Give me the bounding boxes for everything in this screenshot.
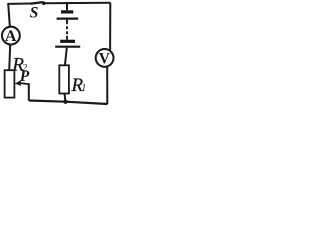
switch S pivot dot (42, 1, 46, 5)
wire: right vertical from top corner down to voltmeter (109, 3, 111, 51)
svg-text:S: S (30, 5, 39, 22)
voltmeter V circle (96, 49, 114, 67)
wire: left vertical from top-left corner down to ammeter (8, 4, 10, 27)
ammeter A letter (5, 28, 17, 45)
label R1 (71, 75, 87, 96)
node: battery top junction dot (66, 2, 69, 5)
label P (20, 68, 30, 85)
rheostat slider arrow (pointer P) (15, 80, 29, 86)
battery cell 2 long thin plate (55, 46, 80, 48)
svg-text:V: V (99, 50, 111, 67)
battery dashed middle stub (66, 20, 68, 40)
wire: slider tail down to bottom wire (28, 83, 30, 100)
wire: ammeter bottom to rheostat R2 (9, 45, 10, 71)
wire: battery bottom to resistor R1 (65, 48, 67, 66)
battery top stub (66, 3, 68, 10)
battery cell 1 long thin plate (57, 18, 79, 20)
ammeter A circle (2, 27, 20, 45)
voltmeter V letter (99, 50, 111, 67)
rheostat R2 body (5, 70, 15, 97)
switch S blade (31, 2, 44, 4)
junction dot at R1 bottom on bottom wire (63, 100, 67, 104)
wire: voltmeter bottom to bottom-right corner (106, 67, 108, 105)
label R2 (11, 55, 27, 76)
svg-text:1: 1 (81, 83, 86, 94)
wire: top horizontal right segment (45, 2, 111, 4)
wire: bottom horizontal (29, 101, 108, 105)
wire: R1 bottom lead (64, 93, 67, 101)
battery cell 1 short thick plate (61, 10, 73, 13)
battery cell 2 short thick plate (60, 40, 75, 43)
resistor R1 body (59, 65, 69, 93)
wire: top horizontal left segment (7, 3, 31, 5)
label S (30, 5, 39, 22)
svg-text:A: A (5, 28, 17, 45)
